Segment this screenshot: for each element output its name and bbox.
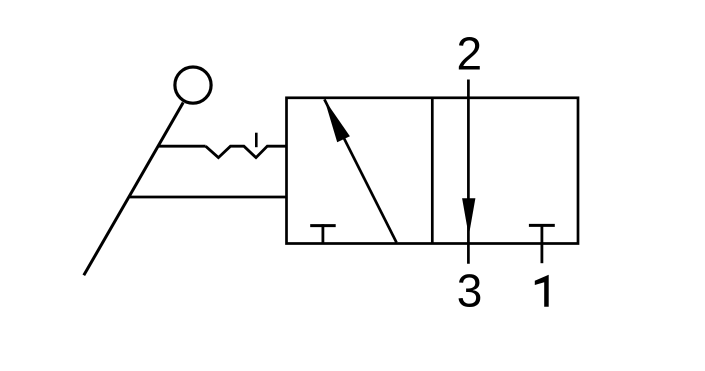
svg-text:3: 3 (457, 265, 483, 317)
lever arm (84, 103, 183, 276)
port label 1 (535, 275, 549, 307)
lever knob (175, 67, 211, 103)
valve body frame (287, 98, 579, 244)
detent pin (255, 133, 258, 148)
lower link line (130, 196, 287, 199)
svg-text:2: 2 (457, 27, 483, 79)
port 2 flow line with arrow right position (462, 80, 475, 264)
position divider (431, 98, 434, 244)
blocked port symbol left position (310, 224, 336, 243)
upper link line (159, 145, 206, 148)
blocked port 1 symbol right position (529, 224, 555, 263)
detent notches (206, 146, 287, 157)
flow path arrow left position (324, 99, 396, 242)
